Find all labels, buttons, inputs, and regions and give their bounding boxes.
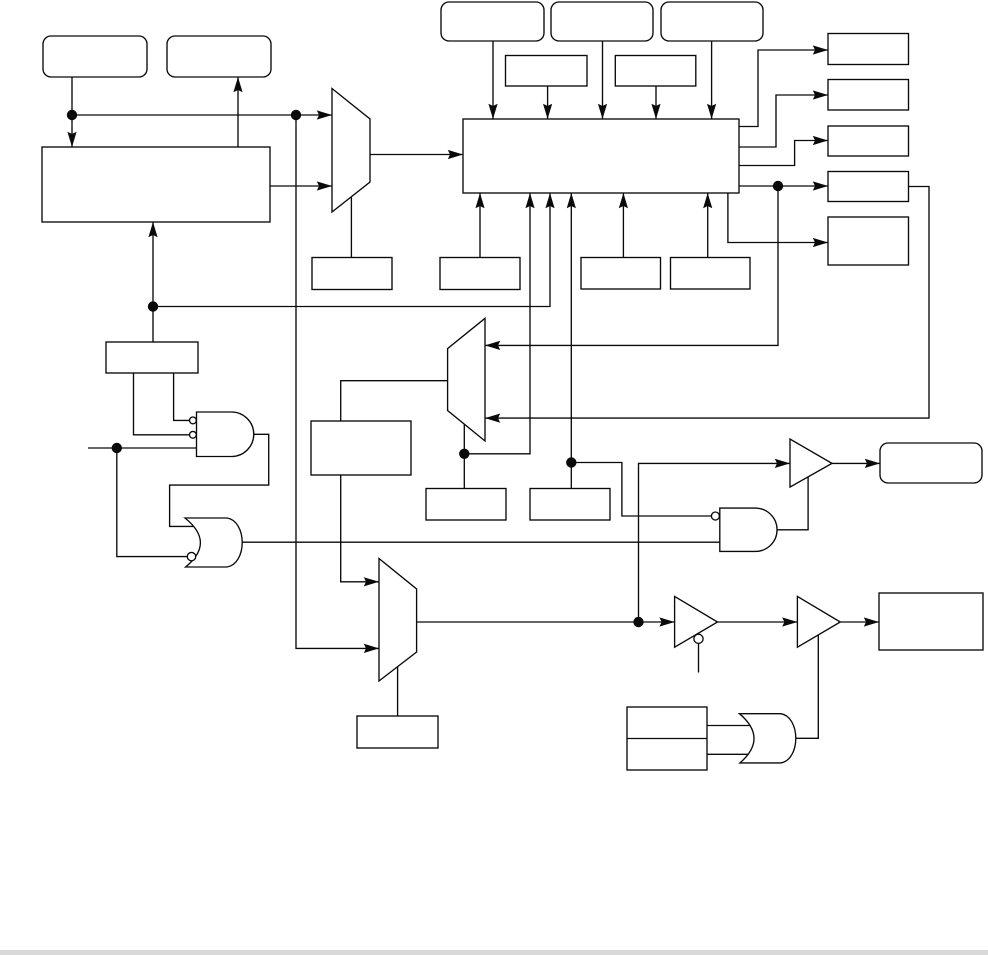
wire: node N4 to NOR U4 inverted input 2 [117, 448, 188, 557]
inverter U6 [675, 596, 718, 647]
wire: mux U1 select to box B1 [350, 196, 352, 257]
arrowhead: into counter block left [448, 150, 463, 159]
wire: inverter U6 output to buffer U7 [718, 621, 798, 623]
bubble: AND U9 input A [190, 417, 197, 424]
arrowhead: box B4 into counter bottom [703, 193, 712, 208]
box B6 [530, 489, 610, 521]
output box (bottom right) [879, 593, 983, 650]
wire: node N2 down to mux U3 input 2 [296, 115, 379, 648]
arrowhead: into register A [813, 45, 828, 54]
wire: control logic box up to control block [152, 222, 154, 342]
register A (right column) [828, 34, 909, 65]
arrowhead: into counter bottom x571 [567, 193, 576, 208]
buffer U7 [797, 596, 840, 647]
wire: mux U2 select through node N5 to box B5 [463, 424, 465, 488]
wire: register D output to mux U2 input 2 [485, 187, 929, 419]
arrowhead: box T1 into counter [543, 104, 552, 119]
wire: node N7 down to mux U2 input 1 [485, 186, 778, 345]
wire: counter bottom to register E [728, 193, 828, 243]
node N1 [67, 110, 77, 120]
arrowhead: into mux U3 input 1 [364, 577, 379, 586]
bubble: NOR U4 input 2 [187, 552, 195, 560]
arrowhead: into register C [813, 136, 828, 145]
register R1 (rounded) [43, 36, 147, 77]
arrowhead: into counter bottom x530 [525, 193, 534, 208]
wire: inverter U6 control stub [698, 643, 700, 672]
box B7 (mux U3 select source) [357, 716, 438, 748]
wire: box T1 to counter pin [547, 86, 549, 119]
bubble: inverter U6 control [694, 634, 703, 643]
wire: mux U1 output to counter block [370, 154, 463, 156]
arrowhead: register R5 into counter [707, 104, 716, 119]
arrowhead: box B3 into counter bottom [619, 193, 628, 208]
box B2 [440, 258, 520, 290]
arrowhead: into mux U2 input 2 [485, 414, 500, 423]
wire: clk net to mux U1 input 1 [72, 114, 332, 116]
arrowhead: into register D [813, 181, 828, 190]
arrowhead: into output box [864, 617, 879, 626]
arrowhead: into register E [813, 238, 828, 247]
bubble: NAND U5 input 1 [711, 512, 719, 520]
wire: control logic box to AND U9 inverted input B [134, 373, 190, 435]
wire: counter bottom pin to node N5 [464, 193, 530, 454]
wire: mux U3 select to box B7 [397, 667, 399, 716]
register R2 (rounded) [167, 36, 271, 77]
arrowhead: into buffer U7 [782, 617, 797, 626]
wire: box B8 upper output to OR U10 input 1 [707, 725, 751, 727]
arrowhead: into mux U2 input 1 [485, 341, 500, 350]
wire: register R1 to control block (clk net) [71, 77, 73, 147]
wire: counter output bit to register C [739, 141, 828, 166]
arrowhead: into inverter U6 [659, 617, 674, 626]
box B4 [671, 258, 751, 290]
register C (right column) [828, 126, 909, 156]
wire: box B3 up to counter bottom [622, 193, 624, 258]
wire: OR U10 output to buffer U7 enable [796, 633, 819, 738]
wire: node N6 to NAND gate U5 inverted input [571, 463, 711, 517]
mux U3 [379, 559, 417, 682]
register R5 (rounded) [661, 2, 763, 41]
node N3 [148, 301, 158, 311]
box B5 [426, 489, 506, 521]
wire: box W1 to mux U3 input 1 [341, 475, 379, 582]
box T1 [506, 56, 588, 87]
wire: AND U9 output to NOR U4 input 1 [170, 434, 269, 526]
wire: count net from node N3 to counter bottom [153, 193, 550, 307]
wire: NOR U4 output to NAND U5 input 2 [242, 541, 720, 543]
wire: external signal to AND U9 input C [88, 447, 197, 449]
arrowhead: box B2 into counter bottom [475, 193, 484, 208]
register R4 (rounded) [551, 2, 653, 41]
box B1 (mux U1 select source) [312, 258, 392, 290]
node N6 [566, 457, 576, 467]
node N4 [112, 443, 122, 453]
wire: control block output to mux U1 input 2 [270, 185, 332, 187]
NAND gate U5 [720, 508, 777, 551]
buffer U8 [790, 439, 832, 487]
node N8 [633, 617, 643, 627]
bubble: AND U9 input B [190, 431, 197, 438]
control logic box (mid left) [106, 342, 198, 373]
arrowhead: into mux U1 input 2 [317, 181, 332, 190]
register R6 (rounded, output pin) [880, 443, 982, 483]
wire: counter bottom pin through node N6 to box B6 [570, 193, 572, 489]
wire: box T2 to counter pin [655, 86, 657, 119]
control block (top left) [42, 147, 270, 222]
AND gate U9 [197, 412, 254, 457]
wire: box B4 up to counter bottom [707, 193, 709, 258]
wire: register R4 to counter pin [602, 41, 604, 119]
wire: register R3 to counter pin [492, 41, 494, 119]
wire: control logic box to AND U9 inverted input A [174, 373, 190, 420]
box B3 [581, 258, 661, 290]
mux U2 [448, 318, 485, 441]
node N5 [459, 449, 469, 459]
wire: box B8 lower output to OR U10 input 2 [707, 753, 750, 755]
wire: buffer U7 output to output box [840, 621, 879, 623]
wire: mux U3 output to inverter U6 [417, 621, 675, 623]
NOR gate U4 [185, 518, 242, 567]
box B8 divider [627, 738, 707, 740]
arrowhead: into register R2 bottom [233, 77, 242, 92]
wire: box B2 up to counter bottom [479, 193, 481, 258]
register D (right column) [828, 172, 909, 202]
mux U1 [332, 89, 370, 213]
OR gate U10 [740, 714, 796, 763]
arrowhead: into control block bottom [148, 222, 157, 237]
register E (right column) [828, 217, 909, 265]
arrowhead: into control block top [67, 132, 76, 147]
wire: counter output bit to register D [739, 185, 828, 187]
box T2 [615, 56, 696, 87]
arrowhead: into register R6 [865, 459, 880, 468]
arrowhead: register R3 into counter [488, 104, 497, 119]
register B (right column) [828, 80, 909, 111]
wire: counter output bit to register B [739, 95, 828, 147]
box W1 (waveform block) [311, 421, 411, 475]
wire: control block up to register R2 [237, 77, 239, 147]
arrowhead: register R4 into counter [598, 104, 607, 119]
arrowhead: box T2 into counter [651, 104, 660, 119]
arrowhead: into register B [813, 90, 828, 99]
node N7 [773, 181, 783, 191]
arrowhead: count net into counter bottom [545, 193, 554, 208]
counter block (center) [463, 119, 739, 193]
wire: NAND U5 output to buffer U8 enable [777, 474, 808, 530]
wire: counter output bit to register A [739, 50, 828, 127]
wire: buffer U8 output to register R6 [832, 462, 880, 464]
wire: node N8 up to output buffer U8 [639, 463, 791, 622]
register R3 (rounded) [441, 2, 544, 41]
wire: register R5 to counter pin [711, 41, 713, 119]
arrowhead: into mux U3 input 2 [364, 644, 379, 653]
bottom gray bar [0, 950, 988, 955]
box B8 (two-cell compare box) [627, 707, 707, 770]
node N2 [291, 110, 301, 120]
arrowhead: into buffer U8 [775, 459, 790, 468]
wire: mux U2 output to box W1 [341, 381, 448, 421]
arrowhead: into mux U1 input 1 [317, 110, 332, 119]
